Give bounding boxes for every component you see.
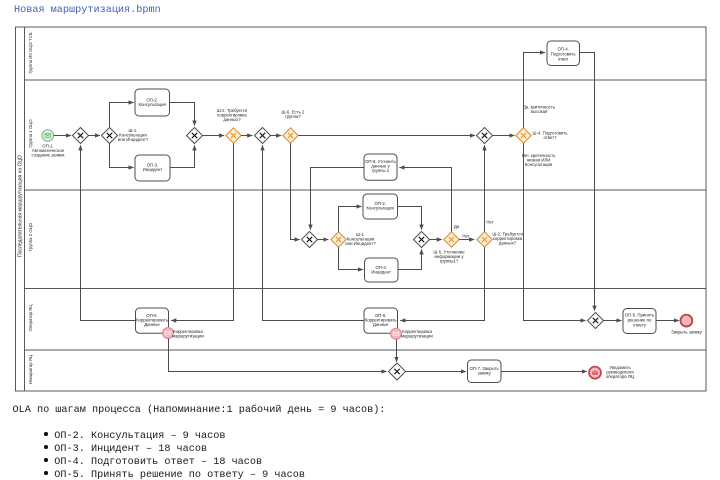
wire ОП-6a return to G1	[81, 145, 136, 320]
svg-text:Закрыть заявку: Закрыть заявку	[671, 329, 703, 334]
svg-text:Инцидент: Инцидент	[371, 270, 391, 275]
gateway G8b merge (lane 3)	[414, 232, 430, 248]
svg-text:Группа 1 ОЦО: Группа 1 ОЦО	[28, 119, 33, 148]
svg-text:группа?: группа?	[285, 114, 301, 119]
svg-text:Инцидент: Инцидент	[143, 167, 163, 172]
pool label divider	[24, 27, 26, 391]
wire ОП-5 to end event	[656, 320, 679, 322]
gateway G5 merge	[255, 128, 271, 144]
OLA list	[44, 430, 305, 480]
gateway Ш-5	[433, 224, 469, 264]
svg-text:Данные: Данные	[373, 322, 389, 327]
gateway Ш-2b (lane 3)	[477, 220, 524, 248]
task ОП-6a Корректировать Данные	[136, 308, 169, 333]
svg-text:высокая: высокая	[531, 109, 548, 114]
wire Ш-2b Да down to ОП-6b	[400, 247, 484, 320]
wire Ш-5 Нет to Ш-2b	[459, 239, 474, 241]
svg-text:Нет: Нет	[486, 220, 493, 225]
gateway Ш-2 (lane 2)	[217, 108, 248, 143]
wire boundary ОП-6b down to G10	[396, 339, 398, 362]
wire ОП-3b to G8b	[398, 249, 422, 269]
task ОП-5 Принять решение по ответу	[623, 309, 656, 334]
boundary event on ОП-6a	[163, 328, 205, 339]
wire Ш-2b Нет up to G7	[484, 145, 486, 232]
task ОП-3 Инцидент (lane 2)	[135, 155, 170, 181]
svg-text:Группа 2 ОЦО: Группа 2 ОЦО	[28, 222, 33, 251]
wire Ш-3 up to ОП-2b	[339, 207, 362, 232]
svg-text:ответ?: ответ?	[543, 135, 557, 140]
task ОП-4 Подготовить ответ	[547, 41, 580, 66]
svg-text:Нет: Нет	[462, 234, 469, 239]
gateway Ш-3 (lane 3)	[331, 232, 377, 247]
task ОП-2 Консультация (lane 2)	[135, 89, 170, 116]
wire G5 to Ш-6	[271, 135, 282, 137]
svg-text:данных?: данных?	[223, 117, 241, 122]
task ОП-6b Корректировать Данные	[364, 308, 398, 333]
pool border	[16, 27, 707, 391]
svg-text:маршрутизации: маршрутизации	[172, 334, 204, 339]
wire ОП-6b return to G5	[263, 145, 365, 320]
wire Ш-2 to G5	[241, 135, 252, 137]
gateway G7 merge	[477, 128, 493, 144]
task ОП-7 Закрыть заявку	[468, 360, 502, 383]
svg-text:Группа ИК ОЦО ТСБ: Группа ИК ОЦО ТСБ	[28, 32, 33, 73]
svg-text:Консультация: Консультация	[525, 162, 553, 167]
svg-text:маршрутизации: маршрутизации	[401, 334, 433, 339]
wire Ш-6 Да down to G8a	[291, 143, 300, 239]
svg-text:Оператор ЯЦ: Оператор ЯЦ	[28, 304, 33, 332]
svg-text:или Инцидент?: или Инцидент?	[118, 137, 149, 142]
task ОП-2b Консультация (lane 3)	[363, 194, 398, 219]
lane divider 2/3	[25, 189, 706, 191]
svg-text:Последовательная маршрутизация: Последовательная маршрутизация на ОЦО	[18, 155, 24, 257]
svg-text:Данные: Данные	[144, 322, 160, 327]
wire ОП-8 to G8a top	[311, 168, 365, 230]
wire boundary ОП-6a to G10	[169, 339, 387, 372]
wire G10 to ОП-7	[406, 371, 466, 373]
wire Ш-5 Да up to ОП-8	[400, 168, 452, 232]
lane divider 4/5	[25, 349, 706, 351]
boundary event on ОП-6b	[391, 328, 434, 339]
gateway Ш-1	[102, 128, 149, 144]
gateway G1 merge	[73, 128, 89, 144]
gateway Ш-4	[516, 105, 568, 167]
wire ОП-3 to G3	[170, 145, 195, 167]
gateway G9 merge (lane 4)	[588, 313, 604, 329]
wire Ш-2 Да down to ОП-6a	[171, 143, 233, 320]
wire G8a to Ш-3	[318, 239, 329, 241]
svg-text:оператора ЯЦ: оператора ЯЦ	[606, 374, 635, 379]
svg-text:Инициатор ЯЦ: Инициатор ЯЦ	[28, 354, 33, 384]
task ОП-8 Уточнить данные у группы 1	[364, 154, 397, 180]
wire Ш-4 Нет down to G9	[524, 143, 586, 320]
svg-text:или Инцидент?: или Инцидент?	[345, 241, 376, 246]
gateway G3 merge	[187, 128, 203, 144]
gateway G8a merge (lane 3)	[302, 232, 318, 248]
wire Ш-3 down to ОП-3b	[339, 247, 364, 269]
wire Ш-1 down to ОП-3	[110, 144, 134, 168]
file title link	[14, 5, 161, 16]
svg-text:ответу: ответу	[633, 323, 647, 328]
svg-text:ответ: ответ	[558, 57, 569, 62]
wire G3 to Ш-2	[203, 135, 225, 137]
svg-text:Да: Да	[454, 224, 460, 229]
wire Ш-1 up to ОП-2	[110, 103, 134, 128]
wire G9 to ОП-5	[604, 320, 622, 322]
wire ОП-4 down to G9	[580, 53, 595, 311]
task ОП-3b Инцидент (lane 3)	[365, 258, 399, 282]
gateway Ш-6	[282, 110, 306, 144]
wire ОП-7 to message end	[501, 371, 587, 373]
wire G7 to Ш-4	[493, 135, 515, 137]
svg-text:группы1?: группы1?	[440, 259, 459, 264]
svg-text:группы 1: группы 1	[372, 168, 390, 173]
lane divider 1/2	[25, 79, 706, 81]
svg-text:заявку: заявку	[478, 371, 492, 376]
wire G1 to G2	[89, 135, 101, 137]
wire ОП-2b to G8b	[398, 207, 422, 230]
gateway G10 merge (lane 5)	[389, 363, 406, 380]
wire Ш-4 Да up to ОП-4	[524, 53, 546, 128]
wire ОП-2 to G3	[170, 103, 195, 126]
message end event Уведомить руководителя	[589, 365, 635, 379]
wire start to G1	[54, 135, 72, 137]
svg-text:создание заявки: создание заявки	[32, 153, 66, 158]
OLA heading	[13, 405, 386, 416]
svg-text:данных?: данных?	[499, 241, 517, 246]
svg-text:Консультация: Консультация	[139, 102, 167, 107]
svg-text:Консультация: Консультация	[367, 206, 395, 211]
start event ОП-1	[32, 130, 66, 158]
lane divider 3/4	[25, 288, 706, 290]
end event Закрыть заявку	[671, 315, 703, 335]
wire G8b to Ш-5	[430, 239, 442, 241]
wire Ш-6 to G7 (long)	[298, 135, 475, 137]
